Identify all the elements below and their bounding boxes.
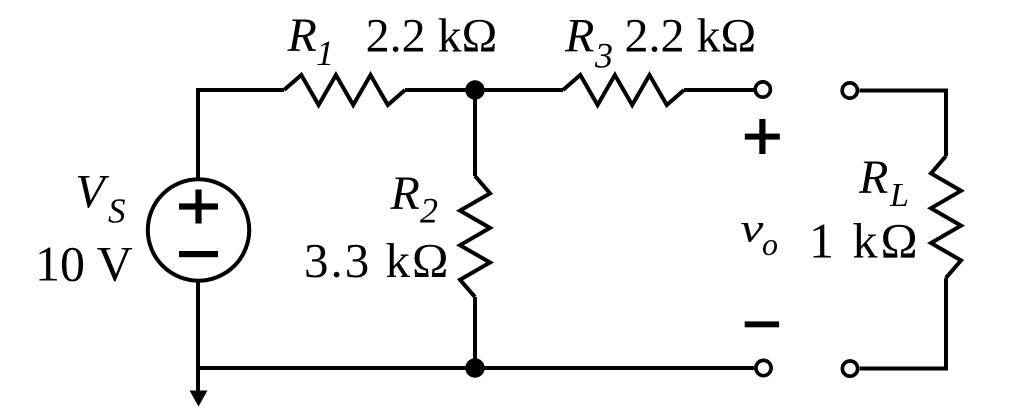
- svg-text:2.2 kΩ: 2.2 kΩ: [366, 10, 498, 63]
- resistor RL: [931, 156, 961, 278]
- svg-text:3: 3: [594, 35, 613, 75]
- wire top-left rail: [198, 90, 284, 368]
- label VS: [75, 166, 125, 231]
- plus sign in source: [179, 190, 218, 224]
- wire R3 to output terminal: [684, 88, 754, 92]
- svg-text:R: R: [390, 167, 420, 220]
- label R1: [287, 9, 335, 73]
- terminal bottom output: [756, 360, 771, 375]
- label R3: [564, 9, 613, 75]
- wire R2 bottom: [473, 297, 477, 368]
- node A junction top: [465, 80, 484, 99]
- svg-text:V: V: [75, 166, 109, 219]
- wire RL top: [860, 91, 947, 157]
- label RL: [858, 151, 909, 214]
- voltage source VS circle: [148, 179, 249, 280]
- resistor R1: [284, 75, 405, 105]
- svg-text:S: S: [108, 192, 126, 231]
- resistor R2: [460, 176, 490, 297]
- wire R1 to R3: [405, 88, 563, 92]
- terminal top output: [755, 82, 770, 97]
- svg-text:10 V: 10 V: [35, 236, 133, 292]
- minus sign in source: [179, 251, 218, 257]
- svg-text:2.2 kΩ: 2.2 kΩ: [625, 10, 757, 63]
- svg-text:3.3 kΩ: 3.3 kΩ: [304, 233, 450, 288]
- svg-text:1 kΩ: 1 kΩ: [809, 213, 921, 269]
- ground arrow: [190, 368, 208, 407]
- svg-text:v: v: [740, 206, 763, 251]
- svg-text:1: 1: [316, 33, 334, 73]
- label vo: [740, 206, 778, 263]
- terminal RL bottom: [842, 361, 857, 376]
- wire RL bottom: [860, 278, 946, 369]
- label R2: [390, 167, 439, 231]
- node B junction bottom: [465, 358, 484, 377]
- svg-text:R: R: [564, 9, 594, 62]
- svg-text:2: 2: [420, 191, 438, 231]
- resistor R3: [563, 75, 684, 105]
- plus sign output: [745, 119, 780, 154]
- wire bottom rail: [198, 366, 754, 370]
- minus sign output: [745, 321, 779, 327]
- terminal RL top: [842, 83, 857, 98]
- svg-text:L: L: [889, 177, 909, 214]
- svg-text:R: R: [858, 151, 888, 204]
- wire R2 branch top: [473, 90, 477, 176]
- svg-text:R: R: [287, 9, 317, 62]
- svg-text:o: o: [762, 226, 778, 262]
